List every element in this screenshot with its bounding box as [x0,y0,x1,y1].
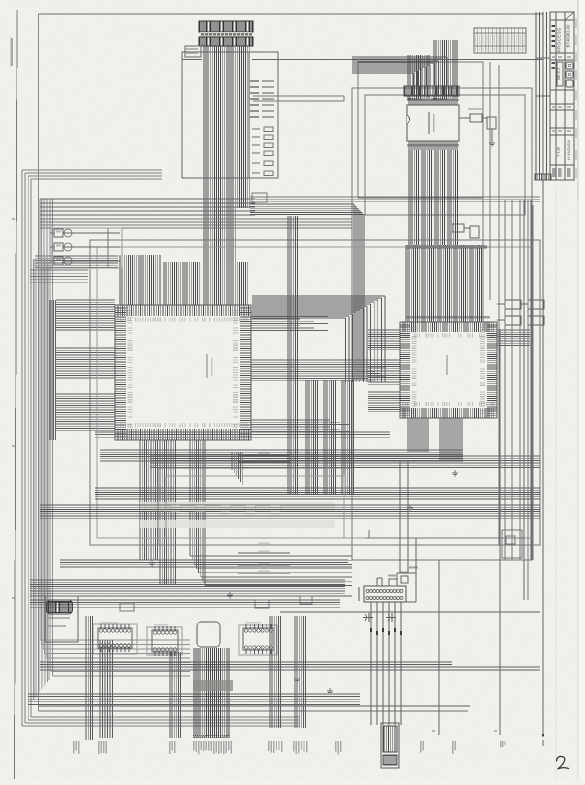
svg-text:BT40962-00: BT40962-00 [566,24,571,48]
svg-text:Y-138: Y-138 [556,146,561,157]
svg-text:PROCESS: PROCESS [557,28,562,53]
svg-text:H.YASUDA: H.YASUDA [566,140,571,160]
